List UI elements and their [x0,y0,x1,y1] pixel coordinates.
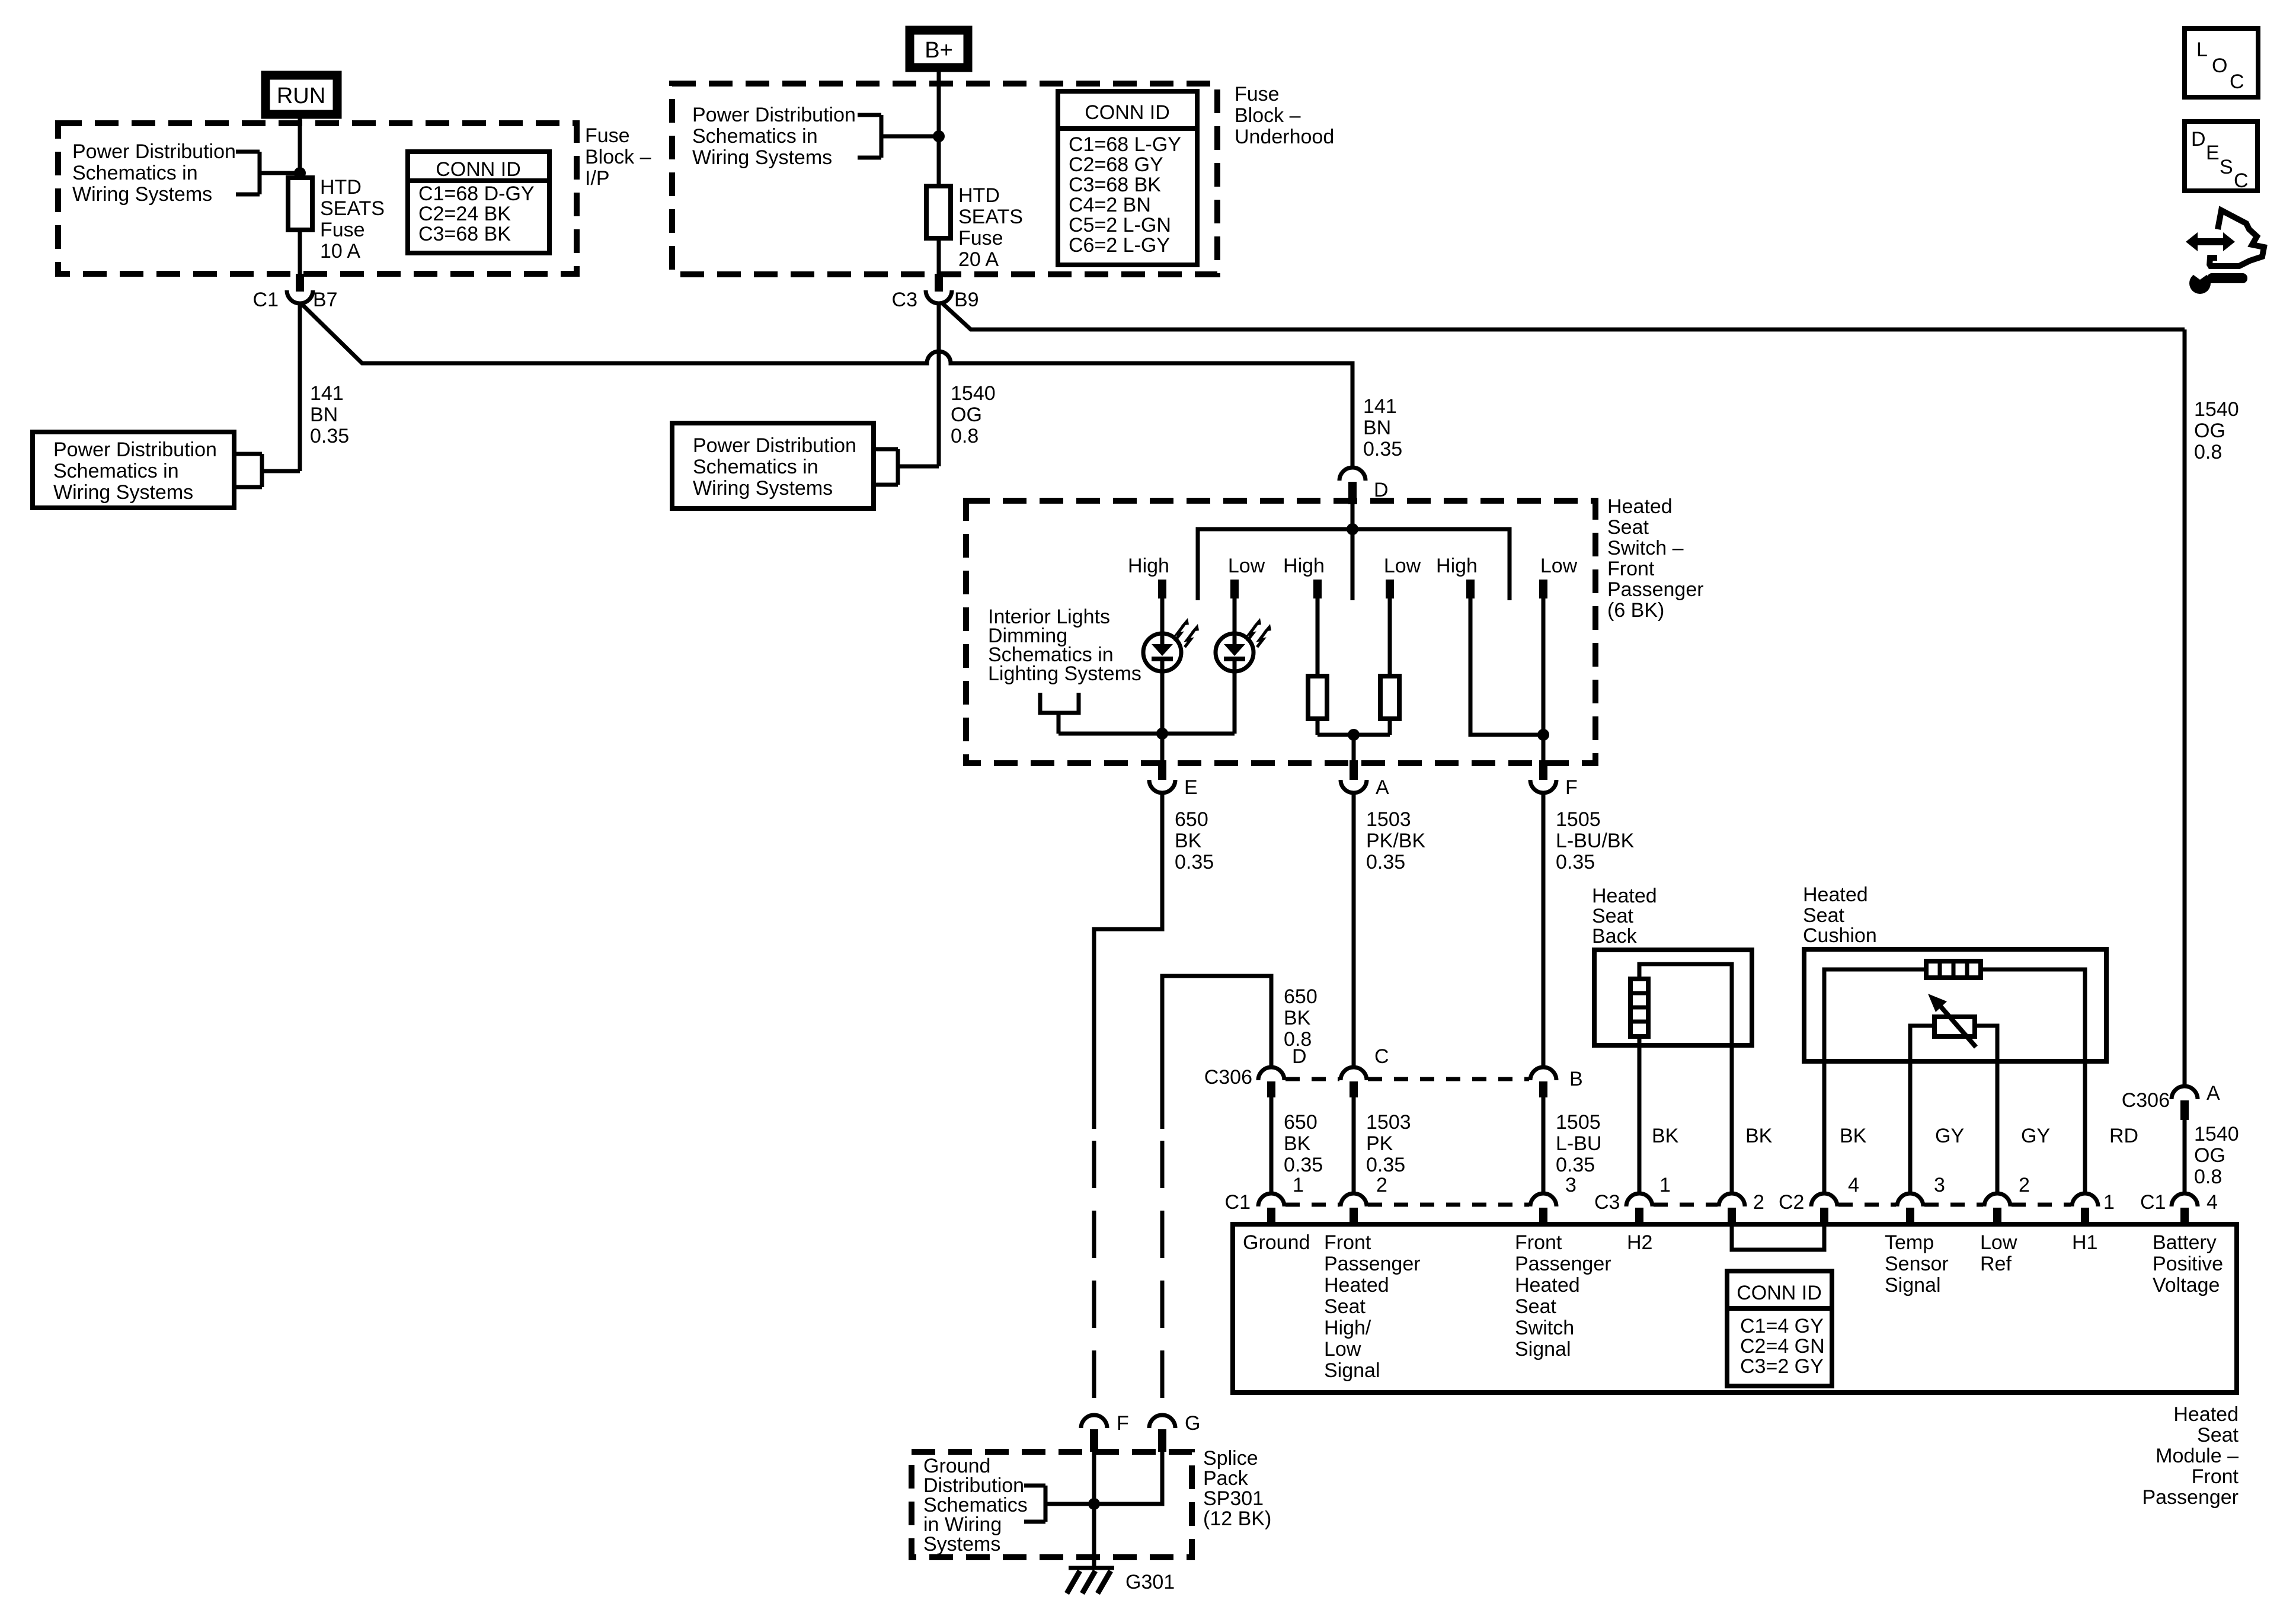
connector C306 D [1204,1045,1307,1097]
svg-text:Block –: Block – [585,146,651,168]
svg-text:C4=2 BN: C4=2 BN [1069,194,1151,216]
junction dot LED return [1156,728,1168,740]
resistor low indicator [1380,598,1399,735]
module connector C2 pin 2 [1984,1174,2030,1224]
svg-text:C1: C1 [253,289,279,311]
svg-text:F: F [1117,1412,1129,1435]
wire fuse to connector C1 B7 [298,230,302,274]
svg-text:Voltage: Voltage [2153,1274,2220,1297]
svg-text:BK: BK [1284,1007,1311,1029]
node B+ (battery voltage) [910,30,968,68]
svg-text:Schematics in: Schematics in [693,456,818,478]
junction dot bus center [1347,523,1358,535]
svg-text:PK/BK: PK/BK [1366,830,1425,852]
svg-text:SEATS: SEATS [958,206,1023,228]
svg-text:L-BU: L-BU [1556,1132,1601,1155]
seat back heater element circuit [1639,964,1732,1194]
svg-text:BN: BN [1363,417,1391,439]
svg-text:C: C [2234,169,2249,192]
svg-text:BK: BK [1284,1132,1311,1155]
dashed link module pins 2-3 [1368,1203,1529,1207]
svg-text:BK: BK [1175,830,1202,852]
svg-text:H1: H1 [2072,1231,2097,1254]
svg-text:Temp: Temp [1885,1231,1934,1254]
LED indicator high (illumination) [1143,598,1199,734]
thermistor temp sensor [1910,994,1997,1061]
svg-text:Positive: Positive [2153,1253,2223,1275]
svg-text:141: 141 [1363,395,1397,418]
module connector C2 pin 1 [2072,1191,2115,1224]
svg-text:C2: C2 [1779,1191,1804,1214]
dashed link module C3 pins [1654,1203,1718,1207]
label pin Front Passenger Heated Seat High/Low Signal [1324,1231,1421,1382]
svg-text:0.35: 0.35 [310,425,349,447]
wire B9 to battery feed (1540 OG) diagonal [941,302,2185,329]
bracket Power Distribution to wire (underhood) [858,115,939,158]
svg-text:Front: Front [1324,1231,1371,1254]
svg-text:S: S [2220,156,2233,178]
svg-text:C: C [2230,71,2244,93]
seat cushion heater circuit [1824,969,2085,1061]
svg-text:F: F [1565,776,1578,799]
wire resistor join to A [1318,733,1390,737]
switch contact pin High 3 [1466,580,1475,598]
svg-text:Module –: Module – [2156,1445,2239,1467]
svg-text:Low: Low [1540,555,1578,577]
wire E dashed continuation to F splice [1092,1141,1096,1414]
module connector C3 pin 1 [1626,1174,1671,1224]
svg-text:I/P: I/P [585,167,610,190]
svg-text:Wiring Systems: Wiring Systems [72,183,212,206]
svg-text:E: E [2206,142,2220,164]
switch contact pin High 2 [1313,580,1322,598]
svg-text:Passenger: Passenger [1324,1253,1421,1275]
wire RUN to fuse [298,119,302,178]
connector A switch [1341,760,1389,799]
svg-text:High: High [1436,555,1478,577]
svg-text:Passenger: Passenger [1515,1253,1611,1275]
switch contact pin Low 2 [1386,580,1394,598]
svg-text:Seat: Seat [2197,1424,2239,1446]
svg-text:OG: OG [2194,1144,2225,1167]
label Splice Pack SP301 [1203,1447,1271,1530]
svg-text:C2=24 BK: C2=24 BK [418,203,511,225]
svg-text:PK: PK [1366,1132,1393,1155]
connector C306 B [1530,1067,1583,1097]
label pin Low Ref [1980,1231,2017,1275]
svg-text:Seat: Seat [1592,905,1633,927]
svg-text:RUN: RUN [277,84,325,108]
svg-text:Power Distribution: Power Distribution [53,438,217,461]
wire temp sensor signal to pin 3 [1908,1061,1913,1194]
svg-text:C3=68 BK: C3=68 BK [1069,174,1161,196]
svg-text:C306: C306 [2122,1089,2170,1112]
svg-text:Schematics in: Schematics in [72,162,198,184]
label Heated Seat Back [1592,885,1657,948]
svg-text:Battery: Battery [2153,1231,2217,1254]
svg-text:L: L [2196,39,2208,61]
label Heated Seat Switch Front Passenger [1607,495,1704,622]
svg-text:1: 1 [1293,1174,1304,1196]
wire G to ground junction [1094,1452,1162,1504]
label wire 1540 OG 0.8 (left) [951,382,996,447]
wire ground jog C306 D to G splice [1162,976,1271,1129]
svg-text:Seat: Seat [1607,516,1649,539]
svg-text:G301: G301 [1125,1571,1175,1593]
switch common bus [1198,529,1510,600]
heated seat back outline [1594,950,1752,1045]
svg-text:H2: H2 [1627,1231,1652,1254]
dashed link module pins 1-2 [1285,1203,1339,1207]
svg-text:C3: C3 [892,289,917,311]
heater element seat back [1630,979,1648,1036]
svg-text:1503: 1503 [1366,808,1411,831]
label Heated Seat Cushion [1803,884,1877,947]
svg-text:0.35: 0.35 [1556,1154,1595,1176]
svg-text:Fuse: Fuse [585,124,630,147]
label Fuse Block Underhood [1235,83,1334,148]
bracket Power Distribution to wire (I/P) [236,152,300,194]
svg-text:L-BU/BK: L-BU/BK [1556,830,1635,852]
label fuse 10A [320,176,385,263]
svg-text:Signal: Signal [1324,1359,1380,1382]
svg-text:B7: B7 [313,289,338,311]
svg-text:Schematics in: Schematics in [53,460,179,482]
junction dot resistor join [1348,729,1360,741]
label wire 1505 L-BU/BK 0.35 [1556,808,1635,873]
wire ground dashed continuation to G splice [1160,1141,1165,1414]
fuse block Underhood dashed outline [672,84,1217,274]
svg-text:C1: C1 [2140,1191,2166,1214]
module connector C1 pin 2 [1341,1174,1387,1224]
svg-text:BN: BN [310,404,338,426]
heated seat cushion outline [1804,949,2106,1061]
svg-text:Low: Low [1384,555,1421,577]
fuse HTD SEATS 10A [288,178,312,230]
wire B7 to switch feed (141 BN) diagonal with hop over 1540 [302,305,1352,468]
switch contact pin High 1 [1158,580,1166,598]
svg-text:Front: Front [1607,558,1655,580]
svg-text:0.35: 0.35 [1363,438,1402,460]
wire fuse to connector C3 B9 [937,238,941,274]
label Interior Lights Dimming [988,606,1141,685]
svg-text:CONN ID: CONN ID [436,158,521,181]
svg-text:C1: C1 [1225,1191,1251,1214]
label wire 1503 PK/BK 0.35 [1366,808,1425,873]
module connector C1 pin 4 [2172,1191,2218,1224]
svg-text:Low: Low [1228,555,1265,577]
node RUN (ignition voltage) [266,75,337,114]
wire C306 A to battery pin 4 [2183,1120,2187,1194]
module connector C1 pin 1 [1225,1174,1304,1224]
svg-text:Seat: Seat [1324,1295,1366,1318]
svg-text:CONN ID: CONN ID [1737,1282,1822,1304]
junction dot splice [1088,1498,1100,1510]
dashed link module C2 pins 4-3 [1838,1203,1896,1207]
wire heater to H2 pin [1638,1036,1642,1194]
dashed link C306 D to C [1285,1077,1339,1081]
wire E to splice (650 BK) [1094,793,1162,1129]
svg-text:Ref: Ref [1980,1253,2012,1275]
svg-text:1540: 1540 [2194,398,2239,421]
svg-text:10 A: 10 A [320,240,360,263]
dashed link module C2 pins 3-2 [1924,1203,1983,1207]
svg-text:Signal: Signal [1885,1274,1941,1297]
wire High3 to Low3 join [1470,598,1543,735]
label Ground Distribution Schematics [923,1455,1028,1555]
junction dot bracket to wire (underhood) [933,130,945,142]
wire low ref to pin 2 [1996,1061,2000,1194]
svg-text:O: O [2212,55,2227,77]
svg-text:A: A [1376,776,1389,799]
wire 1540 OG drop to power distribution [937,303,941,466]
svg-text:Low: Low [1980,1231,2017,1254]
svg-text:4: 4 [2207,1191,2218,1214]
svg-text:C2=4 GN: C2=4 GN [1740,1335,1825,1358]
svg-text:(12 BK): (12 BK) [1203,1507,1271,1530]
svg-text:A: A [2207,1082,2220,1105]
label wire 1540 OG 0.8 (right top) [2194,398,2239,463]
bracket interior lights to LED return [1040,693,1079,734]
svg-text:1503: 1503 [1366,1111,1411,1134]
svg-text:3: 3 [1565,1174,1576,1196]
svg-text:Switch: Switch [1515,1317,1574,1339]
icon jump arrow with wrench [2186,210,2264,294]
label wire 650 BK 0.8 [1284,985,1318,1051]
CONN ID table (underhood) [1058,91,1197,265]
svg-text:Underhood: Underhood [1235,126,1334,148]
junction dot low3 join [1537,729,1549,741]
svg-text:2: 2 [1376,1174,1387,1196]
heated seat module outline [1233,1224,2237,1393]
svg-text:HTD: HTD [320,176,362,199]
svg-text:E: E [1184,776,1198,799]
svg-text:Heated: Heated [1324,1274,1389,1297]
connector C306 C [1341,1045,1389,1097]
svg-text:Power Distribution: Power Distribution [72,140,236,163]
wire cushion heater left to pin 4 [1822,1061,1827,1194]
svg-text:Seat: Seat [1803,904,1844,927]
svg-text:650: 650 [1175,808,1208,831]
splice connector F [1081,1412,1129,1452]
svg-text:20 A: 20 A [958,248,999,271]
label wire 141 BN 0.35 (right) [1363,395,1402,460]
svg-text:Seat: Seat [1515,1295,1556,1318]
svg-text:Schematics in: Schematics in [692,125,818,148]
module connector C1 pin 3 [1530,1174,1576,1224]
svg-text:Switch –: Switch – [1607,537,1684,559]
label wire 1503 PK 0.35 [1366,1111,1411,1176]
svg-text:C1=4 GY: C1=4 GY [1740,1315,1824,1337]
svg-text:BK: BK [1840,1125,1867,1147]
wire A to C306 C [1352,793,1356,1068]
svg-text:High: High [1128,555,1169,577]
label Power Distribution (I/P) [72,140,236,206]
wire 1540 OG vertical to C306 A [2183,329,2187,1087]
junction dot bracket to wire (I/P) [294,167,306,179]
svg-text:2: 2 [2019,1174,2030,1196]
bracket ground distribution to splice [1024,1486,1094,1522]
wire A drop [1352,735,1356,760]
module connector C2 pin 4 [1811,1174,1859,1224]
label wire 1540 OG 0.8 (module) [2194,1123,2239,1188]
box Power Distribution Schematics (middle) [672,423,874,508]
wire C306 C to module pin 2 [1352,1097,1356,1194]
svg-text:Power Distribution: Power Distribution [693,434,856,457]
svg-text:C2=68 GY: C2=68 GY [1069,153,1163,176]
svg-text:Wiring Systems: Wiring Systems [692,146,832,169]
svg-text:Sensor: Sensor [1885,1253,1949,1275]
svg-text:650: 650 [1284,1111,1318,1134]
wire F to ground junction [1092,1452,1096,1568]
svg-text:1505: 1505 [1556,808,1601,831]
svg-text:Splice: Splice [1203,1447,1258,1470]
wire B+ to fuse [937,72,941,186]
svg-text:3: 3 [1934,1174,1945,1196]
CONN ID table (module) [1727,1271,1832,1386]
svg-text:Low: Low [1324,1338,1361,1361]
svg-text:Back: Back [1592,925,1638,948]
dashed link module C2 pins 2-1 [2012,1203,2071,1207]
svg-text:B9: B9 [954,289,979,311]
svg-text:0.8: 0.8 [2194,1166,2222,1188]
svg-text:C1=68 L-GY: C1=68 L-GY [1069,133,1181,156]
svg-text:C1=68 D-GY: C1=68 D-GY [418,183,535,205]
svg-text:G: G [1185,1412,1200,1435]
svg-text:Heated: Heated [1592,885,1657,907]
ground G301 [1067,1568,1175,1593]
wire LED return bus [1059,732,1235,736]
dashed link C306 C to B [1368,1077,1529,1081]
svg-text:Pack: Pack [1203,1467,1249,1490]
svg-text:Block –: Block – [1235,104,1301,127]
LED indicator low (illumination) [1216,598,1271,734]
switch pole center stub [1351,529,1355,600]
bracket left power distribution box to wire [234,454,300,487]
svg-text:C3: C3 [1594,1191,1620,1214]
svg-text:C3=68 BK: C3=68 BK [418,223,511,245]
heated seat switch dashed outline [966,501,1595,763]
bracket middle power distribution box to wire [874,449,939,485]
wire D to switch bus [1351,504,1355,529]
internal link H2 bridge [1732,1227,1824,1250]
svg-text:Heated: Heated [1607,495,1673,518]
svg-text:HTD: HTD [958,184,1000,207]
svg-text:Passenger: Passenger [1607,578,1704,601]
label wire 1505 L-BU 0.35 [1556,1111,1601,1176]
svg-text:SP301: SP301 [1203,1487,1264,1510]
svg-text:CONN ID: CONN ID [1085,101,1170,124]
svg-text:141: 141 [310,382,344,405]
svg-text:0.8: 0.8 [951,425,978,447]
label Power Distribution (underhood) [692,104,856,169]
svg-text:1540: 1540 [2194,1123,2239,1145]
svg-text:C3=2 GY: C3=2 GY [1740,1355,1824,1378]
svg-text:OG: OG [2194,420,2225,442]
wire C306 D to module ground pin [1269,1097,1274,1194]
svg-text:Ground: Ground [1243,1231,1310,1254]
module connector C3 pin 2 [1719,1191,1764,1224]
resistor high indicator [1308,598,1327,735]
connector F switch [1530,760,1578,799]
heater element seat cushion [1926,961,1981,978]
connector D heated seat switch [1339,468,1389,504]
svg-text:B+: B+ [925,38,953,63]
svg-text:1: 1 [2103,1191,2115,1214]
icon LOC box [2185,28,2258,97]
svg-text:(6 BK): (6 BK) [1607,599,1664,622]
svg-text:High: High [1283,555,1325,577]
label pin Temp Sensor Signal [1885,1231,1949,1297]
svg-text:Passenger: Passenger [2142,1486,2239,1509]
svg-text:C6=2 L-GY: C6=2 L-GY [1069,234,1170,257]
connector C3 pin B9 [892,274,979,311]
svg-text:1505: 1505 [1556,1111,1601,1134]
label wire 141 BN 0.35 (left) [310,382,349,447]
svg-text:650: 650 [1284,985,1318,1008]
svg-text:0.35: 0.35 [1366,1154,1405,1176]
svg-text:Wiring Systems: Wiring Systems [53,481,193,504]
wire low3 down [1542,598,1546,760]
svg-text:0.35: 0.35 [1556,851,1595,873]
svg-text:4: 4 [1848,1174,1859,1196]
connector E switch [1149,760,1198,799]
CONN ID table (I/P) [408,152,549,253]
svg-text:C: C [1374,1045,1389,1068]
module connector C2 pin 3 [1897,1174,1945,1224]
svg-text:OG: OG [951,404,982,426]
svg-text:D: D [2191,128,2206,151]
box Power Distribution Schematics (left) [33,432,234,508]
connector C306 A [2122,1082,2220,1120]
svg-text:GY: GY [2021,1125,2050,1147]
svg-text:C306: C306 [1204,1066,1252,1089]
svg-text:D: D [1292,1045,1307,1068]
svg-text:Heated: Heated [1515,1274,1580,1297]
fuse block I/P dashed outline [58,123,577,274]
svg-text:Power Distribution: Power Distribution [692,104,856,126]
label fuse 20A [958,184,1023,271]
svg-text:GY: GY [1935,1125,1964,1147]
svg-text:0.35: 0.35 [1284,1154,1323,1176]
svg-text:Heated: Heated [1803,884,1868,906]
svg-text:B: B [1569,1068,1583,1090]
svg-text:Systems: Systems [923,1533,1000,1555]
svg-text:2: 2 [1753,1191,1764,1214]
wire LED return to E [1160,734,1165,760]
svg-text:1: 1 [1659,1174,1671,1196]
svg-text:Fuse: Fuse [1235,83,1280,105]
icon DESC box [2185,121,2257,192]
svg-text:Signal: Signal [1515,1338,1571,1361]
svg-text:BK: BK [1652,1125,1679,1147]
label pin Front Passenger Heated Seat Switch Signal [1515,1231,1611,1361]
svg-text:Fuse: Fuse [320,219,365,241]
splice pack dashed outline [912,1452,1192,1557]
wire cushion heater right to pin 1 [2083,1061,2087,1194]
svg-text:Front: Front [2192,1465,2239,1488]
svg-text:Lighting Systems: Lighting Systems [988,662,1141,685]
label wire 650 BK 0.35 (lower) [1284,1111,1323,1176]
wire 141 BN 0.35 drop to power distribution [298,303,302,471]
switch contact pin Low 1 [1230,580,1239,598]
svg-text:Wiring Systems: Wiring Systems [693,477,833,500]
svg-text:Heated: Heated [2173,1403,2239,1426]
switch contact pin Low 3 [1539,580,1547,598]
svg-text:0.35: 0.35 [1175,851,1214,873]
svg-text:RD: RD [2109,1125,2138,1147]
label Fuse Block I/P [585,124,651,190]
